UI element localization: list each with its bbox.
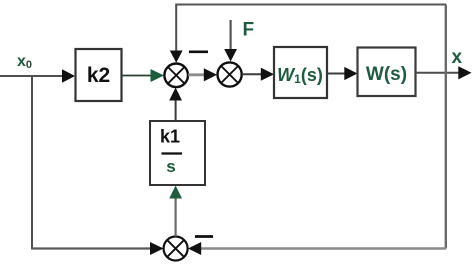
svg-text:k1: k1	[160, 127, 180, 147]
wire top feedback horizontal	[175, 4, 446, 6]
wire left feedback tap vertical	[31, 76, 33, 248]
minus sign at S1	[189, 50, 208, 53]
wire S1 to S2	[188, 68, 217, 81]
wire output to x	[416, 66, 472, 79]
block W1(s)	[274, 47, 327, 98]
wire S2 to W1(s)	[242, 68, 274, 81]
wire bottom-right horizontal to summer S3	[188, 242, 446, 255]
summing junction S1	[164, 64, 188, 88]
node F label	[243, 20, 255, 41]
svg-text:k2: k2	[87, 64, 110, 87]
summing junction S2	[218, 62, 242, 86]
minus sign at S3	[195, 235, 213, 238]
node x output label	[452, 47, 463, 68]
wire top feedback down into S1	[170, 5, 183, 63]
svg-text:s: s	[166, 157, 175, 176]
wire right feedback vertical	[445, 5, 447, 249]
svg-text:F: F	[243, 20, 255, 41]
block k2	[76, 49, 122, 101]
node x0 input label	[17, 53, 32, 71]
svg-text:x: x	[452, 47, 463, 68]
wire F input down into S2	[224, 20, 237, 62]
svg-text:W1(s): W1(s)	[277, 65, 323, 86]
wire W1(s) to W(s)	[327, 67, 358, 80]
wire bottom-left horizontal to summer S3	[31, 242, 164, 255]
block W(s)	[358, 48, 416, 97]
summing junction S3	[164, 237, 188, 261]
wire k1/s up into S1	[169, 88, 182, 122]
block k1/s	[150, 121, 205, 185]
wire input x0 to k2	[0, 69, 75, 82]
svg-text:W(s): W(s)	[366, 64, 407, 85]
wire S3 up into k1/s block	[169, 186, 182, 237]
wire k2 to summer S1	[122, 69, 165, 82]
